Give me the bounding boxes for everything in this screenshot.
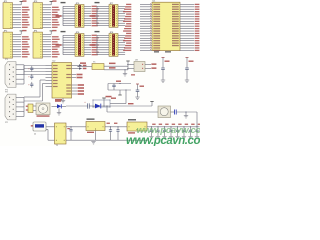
buzzer LS1 xyxy=(33,105,36,107)
left bus of JP7 xyxy=(96,6,98,25)
capacitor CF5 xyxy=(177,127,179,130)
sheet background xyxy=(0,0,200,146)
diode D2 xyxy=(89,105,95,107)
wire harness P2 to U2 xyxy=(24,96,40,98)
wire harness P1 to U2 xyxy=(24,65,46,67)
capacitor C12 xyxy=(171,111,175,113)
power stub K1 xyxy=(151,102,153,107)
regulator U4 xyxy=(87,118,95,120)
capacitor C10 xyxy=(137,84,139,90)
left bus of JP8 xyxy=(96,35,98,54)
capacitor C118 xyxy=(117,127,119,130)
capacitor C9 xyxy=(186,57,189,59)
power port VCC xyxy=(103,98,105,106)
wire down to bus xyxy=(196,112,198,127)
header JP5 xyxy=(56,2,99,27)
RS232 driver U2 xyxy=(46,61,87,101)
svg-text:www.pcavn.com: www.pcavn.com xyxy=(126,135,200,146)
capacitor C3 xyxy=(31,82,33,84)
capacitor CF7 xyxy=(190,127,192,130)
connector JP4 xyxy=(33,30,60,58)
capacitor C1 xyxy=(31,66,33,68)
capacitor CF3 xyxy=(164,127,166,130)
capacitor C8 xyxy=(162,57,165,59)
ground below U2 xyxy=(62,98,64,101)
ground stub xyxy=(185,112,187,116)
capacitor C110 xyxy=(110,127,112,130)
capacitor CF2 xyxy=(157,127,159,130)
relay K1 xyxy=(158,106,171,118)
diode D1 xyxy=(52,105,58,107)
reset button S1 xyxy=(93,100,110,107)
bus wire xyxy=(105,126,127,128)
connector JP1 xyxy=(3,0,30,28)
left bus of JP6 xyxy=(62,35,64,54)
capacitor CF8 xyxy=(196,127,198,130)
capacitor C13 xyxy=(70,127,72,130)
connector JP3 xyxy=(33,0,60,28)
capacitor CF6 xyxy=(183,127,185,130)
power stub xyxy=(119,90,121,95)
wire crystal out pair xyxy=(104,65,128,67)
capacitor CF4 xyxy=(170,127,172,130)
DB9 connector P1 xyxy=(5,59,24,91)
capacitor C2 xyxy=(31,74,33,76)
wire jack to transformer xyxy=(46,126,55,128)
microcontroller U1 xyxy=(123,1,199,53)
bus wire xyxy=(66,126,86,128)
bus wire xyxy=(147,126,200,128)
header JP9 xyxy=(28,104,33,113)
wire down to relay row xyxy=(106,106,108,112)
left bus of JP5 xyxy=(62,6,64,25)
capacitor C11 xyxy=(87,103,89,108)
DB9 connector P2 xyxy=(5,92,24,124)
regulator U5 xyxy=(128,119,136,121)
ground stub crystal xyxy=(124,70,126,74)
wire to diode D2 xyxy=(66,105,88,107)
connector JP2 xyxy=(3,30,30,58)
capacitor CF1 xyxy=(151,127,153,130)
header JP7 xyxy=(90,2,126,27)
header JP8 xyxy=(90,31,126,56)
bottom rail xyxy=(66,139,148,141)
power stub crystal xyxy=(127,61,129,66)
header JP6 xyxy=(56,31,99,56)
reset capacitor C7 xyxy=(108,83,131,85)
